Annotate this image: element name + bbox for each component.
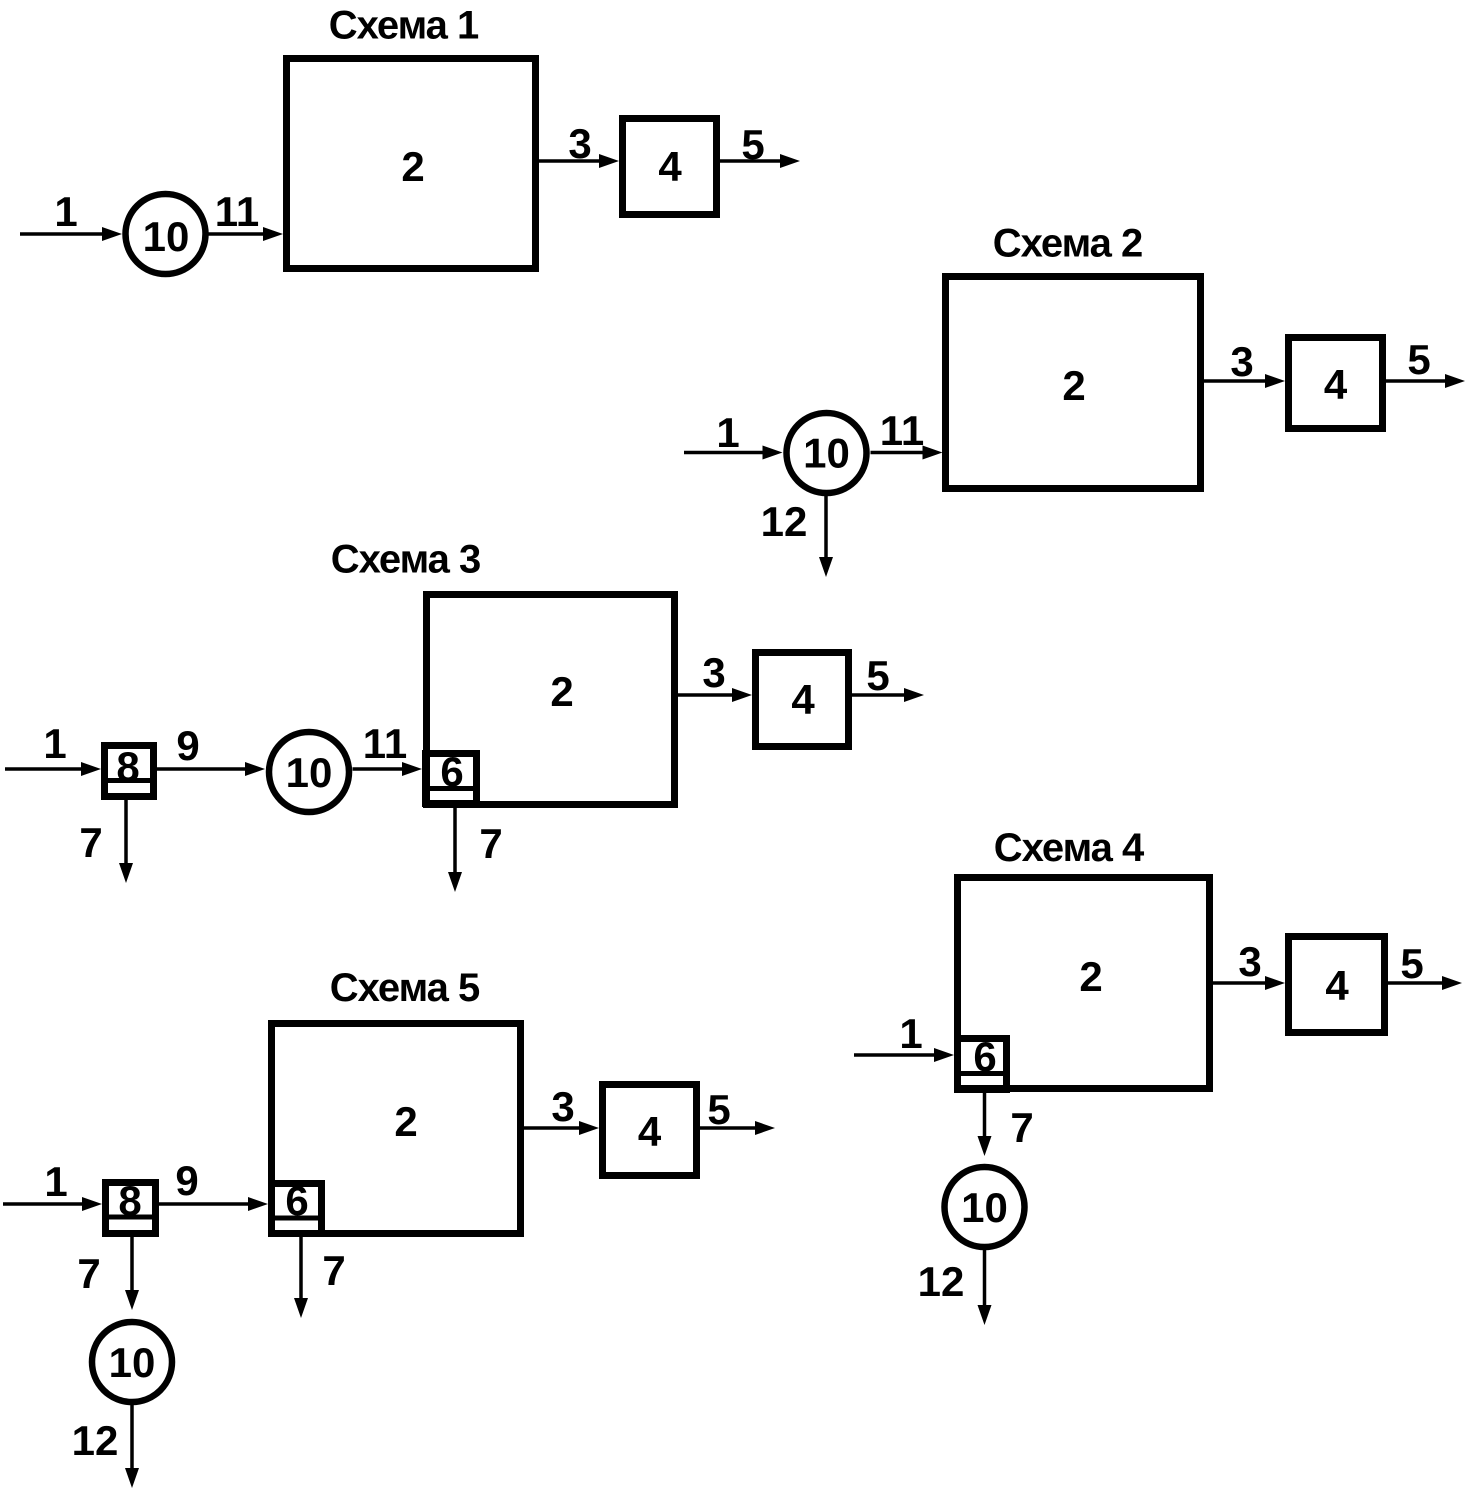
svg-text:5: 5 — [1400, 940, 1423, 987]
arrow 9 from box 8 to box 6 (scheme 5) — [159, 1157, 268, 1211]
svg-text:9: 9 — [176, 722, 199, 769]
svg-text:2: 2 — [401, 143, 424, 190]
svg-text:10: 10 — [961, 1184, 1008, 1231]
mixer circle 10 (scheme 3) — [269, 732, 349, 812]
box 4 (scheme 2) — [1289, 338, 1383, 429]
box 8 with underflow section (scheme 3) — [101, 743, 157, 797]
arrow 5 out of box 4 (scheme 3) — [852, 652, 924, 702]
svg-text:3: 3 — [702, 649, 725, 696]
arrow 7 down from box 6 (scheme 5) — [294, 1237, 346, 1318]
svg-text:4: 4 — [638, 1108, 662, 1155]
arrow 1 into box 8 (scheme 3) — [5, 720, 101, 776]
svg-text:3: 3 — [1238, 938, 1261, 985]
svg-text:4: 4 — [658, 143, 682, 190]
arrow 11 from circle 10 to box 2 (scheme 2) — [871, 407, 943, 460]
arrow 11 from circle 10 to box 6 (scheme 3) — [353, 720, 423, 776]
arrow 12 down from circle 10 (scheme 5) — [72, 1405, 139, 1488]
arrow 5 out of box 4 (scheme 1) — [720, 121, 800, 168]
mixer circle 10 (scheme 5) — [92, 1322, 172, 1402]
box 2 (scheme 1) — [287, 59, 536, 269]
svg-text:3: 3 — [551, 1083, 574, 1130]
box 4 (scheme 1) — [623, 119, 717, 215]
svg-text:1: 1 — [43, 720, 66, 767]
svg-text:Схема 4: Схема 4 — [994, 826, 1145, 870]
svg-text:1: 1 — [899, 1010, 922, 1057]
svg-text:8: 8 — [118, 1177, 141, 1224]
arrow 12 down from circle 10 (scheme 4) — [918, 1250, 992, 1325]
arrow 1 into circle 10 (scheme 1) — [20, 188, 122, 241]
svg-text:Схема 3: Схема 3 — [331, 538, 481, 582]
svg-text:12: 12 — [761, 498, 808, 545]
arrow 7 down from box 8 to circle 10 (scheme 5) — [77, 1237, 139, 1310]
arrow 7 down from box 6 to circle 10 (scheme 4) — [978, 1093, 1034, 1156]
arrow 9 from box 8 to circle 10 (scheme 3) — [157, 722, 265, 776]
arrow 7 down from box 6 (scheme 3) — [448, 807, 503, 892]
svg-text:5: 5 — [741, 121, 764, 168]
box 2 (scheme 3) — [427, 595, 675, 805]
box 2 (scheme 2) — [946, 277, 1201, 489]
box 2 (scheme 4) — [958, 878, 1210, 1089]
arrow 5 out of box 4 (scheme 2) — [1386, 336, 1465, 388]
svg-text:2: 2 — [1062, 362, 1085, 409]
box 4 (scheme 5) — [603, 1085, 697, 1176]
svg-text:8: 8 — [116, 743, 139, 790]
svg-text:7: 7 — [79, 819, 102, 866]
svg-text:10: 10 — [143, 213, 190, 260]
svg-text:11: 11 — [363, 720, 407, 767]
svg-text:10: 10 — [109, 1339, 156, 1386]
svg-text:7: 7 — [479, 820, 502, 867]
arrow 7 down from box 8 (scheme 3) — [79, 800, 133, 883]
arrow 11 from circle 10 to box 2 (scheme 1) — [209, 188, 284, 241]
svg-text:Схема 5: Схема 5 — [330, 966, 480, 1010]
svg-text:1: 1 — [44, 1158, 67, 1205]
box 6 with underflow section (scheme 5) — [268, 1177, 325, 1234]
box 6 with underflow section (scheme 4) — [954, 1033, 1010, 1090]
svg-text:3: 3 — [1230, 338, 1253, 385]
svg-text:9: 9 — [175, 1157, 198, 1204]
box 8 with underflow section (scheme 5) — [102, 1177, 159, 1234]
mixer circle 10 (scheme 4) — [945, 1167, 1025, 1247]
arrow 1 into box 6 (scheme 4) — [854, 1010, 954, 1062]
arrow 3 from box 2 to box 4 (scheme 5) — [524, 1083, 599, 1135]
svg-text:4: 4 — [791, 676, 815, 723]
mixer circle 10 (scheme 2) — [787, 413, 867, 493]
svg-text:2: 2 — [550, 668, 573, 715]
arrow 1 into circle 10 (scheme 2) — [684, 409, 783, 460]
arrow 3 from box 2 to box 4 (scheme 3) — [678, 649, 752, 702]
svg-text:1: 1 — [54, 188, 77, 235]
svg-text:6: 6 — [440, 748, 463, 795]
svg-text:7: 7 — [322, 1247, 345, 1294]
svg-text:7: 7 — [77, 1250, 100, 1297]
box 4 (scheme 3) — [756, 653, 849, 747]
svg-text:2: 2 — [394, 1098, 417, 1145]
svg-text:3: 3 — [568, 120, 591, 167]
arrow 5 out of box 4 (scheme 5) — [700, 1086, 775, 1135]
arrow 3 from box 2 to box 4 (scheme 4) — [1213, 938, 1285, 990]
svg-text:Схема 1: Схема 1 — [329, 4, 479, 48]
box 2 (scheme 5) — [272, 1024, 521, 1234]
svg-text:10: 10 — [803, 430, 850, 477]
svg-text:6: 6 — [973, 1033, 996, 1080]
box 4 (scheme 4) — [1289, 937, 1385, 1033]
arrow 3 from box 2 to box 4 (scheme 2) — [1204, 338, 1285, 388]
svg-text:11: 11 — [880, 407, 924, 454]
svg-text:2: 2 — [1079, 953, 1102, 1000]
arrow 12 down from circle 10 (scheme 2) — [761, 496, 833, 577]
svg-text:4: 4 — [1324, 361, 1348, 408]
svg-text:4: 4 — [1325, 962, 1349, 1009]
box 6 with underflow section (scheme 3) — [422, 748, 480, 804]
arrow 3 from box 2 to box 4 (scheme 1) — [539, 120, 619, 168]
mixer circle 10 (scheme 1) — [126, 194, 206, 274]
svg-text:11: 11 — [215, 188, 259, 235]
svg-text:5: 5 — [866, 652, 889, 699]
svg-text:Схема 2: Схема 2 — [993, 222, 1143, 266]
svg-text:10: 10 — [286, 749, 333, 796]
svg-text:6: 6 — [285, 1177, 308, 1224]
svg-text:5: 5 — [1407, 336, 1430, 383]
svg-text:7: 7 — [1010, 1104, 1033, 1151]
svg-text:12: 12 — [918, 1258, 965, 1305]
svg-text:5: 5 — [707, 1086, 730, 1133]
svg-text:1: 1 — [716, 409, 739, 456]
arrow 1 into box 8 (scheme 5) — [3, 1158, 102, 1211]
svg-text:12: 12 — [72, 1417, 119, 1464]
arrow 5 out of box 4 (scheme 4) — [1388, 940, 1462, 990]
